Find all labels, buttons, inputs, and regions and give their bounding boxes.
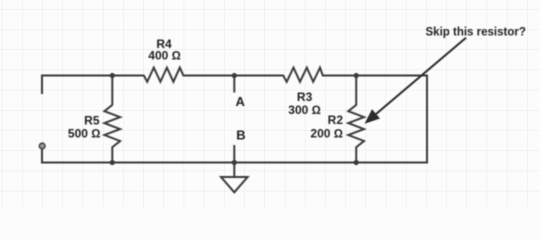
svg-text:Skip this resistor?: Skip this resistor? <box>426 26 526 38</box>
svg-text:R2: R2 <box>328 113 344 127</box>
svg-text:A: A <box>236 94 246 109</box>
svg-text:B: B <box>236 128 245 143</box>
svg-text:R5: R5 <box>84 114 100 128</box>
svg-text:400 Ω: 400 Ω <box>148 49 181 63</box>
svg-text:200 Ω: 200 Ω <box>310 127 343 141</box>
svg-text:300 Ω: 300 Ω <box>288 103 321 117</box>
svg-text:500 Ω: 500 Ω <box>68 126 101 140</box>
